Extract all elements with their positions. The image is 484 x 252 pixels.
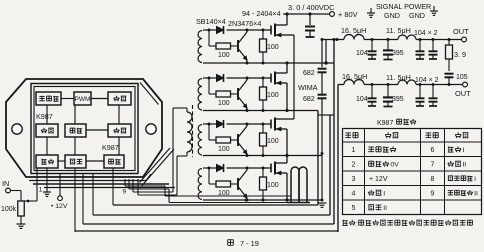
svg-text:SIGNAL POWER: SIGNAL POWER <box>376 2 431 11</box>
wire filter row1 rail <box>322 39 344 41</box>
transistor Q4 2N3476 <box>237 178 239 190</box>
block triangle-wave <box>36 92 61 105</box>
bus fb4 <box>75 230 338 232</box>
bus feedback B <box>44 187 175 189</box>
resistor 100 gate stage1 <box>262 30 264 39</box>
svg-text:100: 100 <box>218 146 230 153</box>
MOSFET V4 <box>270 164 272 173</box>
svg-text:I: I <box>383 190 385 197</box>
svg-text:SB140×4: SB140×4 <box>196 17 226 26</box>
inductor L2 11.5uH <box>398 35 416 40</box>
svg-text:II: II <box>474 190 478 197</box>
wire riser B <box>333 40 335 225</box>
wire stage1 top <box>203 29 216 31</box>
svg-text:11. 5μH: 11. 5μH <box>386 73 411 82</box>
wire stage1 bottom <box>203 62 287 64</box>
svg-text:682: 682 <box>303 96 315 103</box>
wire link y115 <box>318 114 334 116</box>
svg-text:1: 1 <box>39 187 43 194</box>
pin 4 <box>74 174 76 233</box>
table header <box>345 132 351 134</box>
ground 100k <box>17 223 26 225</box>
wire in <box>10 190 21 192</box>
wire riser C <box>329 115 331 215</box>
svg-text:7 - 19: 7 - 19 <box>240 239 259 248</box>
svg-text:6: 6 <box>431 147 435 154</box>
capacitor 395 <box>387 85 389 98</box>
svg-text:II: II <box>462 161 466 168</box>
table note <box>342 220 348 222</box>
capacitor 105 <box>448 59 450 71</box>
svg-text:105: 105 <box>456 74 468 81</box>
wire stage4 bottom <box>203 199 287 201</box>
terminal OUT1 <box>462 37 467 42</box>
svg-text:11. 5μH: 11. 5μH <box>386 26 411 35</box>
bus fb2 <box>93 214 330 216</box>
wire stage4 top <box>203 167 216 169</box>
resistor 100 stage1 <box>216 43 231 49</box>
svg-text:K987: K987 <box>102 143 119 152</box>
pin 6 <box>92 174 94 216</box>
diode D2 SB140 <box>217 75 224 82</box>
capacitor 104x2 b <box>432 40 434 52</box>
diode D1 SB140 <box>217 27 224 34</box>
block buffer <box>36 155 58 168</box>
MOSFET V3 <box>270 120 272 129</box>
capacitor 104 <box>371 40 373 52</box>
wire sensor base <box>287 202 310 204</box>
wire M2 source <box>286 83 288 111</box>
wire totem out 2 <box>138 194 177 196</box>
svg-text:PWM: PWM <box>75 96 91 103</box>
capacitor 104x2 b <box>432 85 434 99</box>
svg-text:GND: GND <box>409 11 425 20</box>
svg-text:+ 12V: + 12V <box>369 176 388 183</box>
svg-text:3: 3 <box>352 176 356 183</box>
wire ground1 node <box>287 110 318 112</box>
svg-text:+ 80V: + 80V <box>338 10 358 19</box>
svg-text:104: 104 <box>356 96 368 103</box>
svg-text:WIMA: WIMA <box>298 83 318 92</box>
wire M1 source <box>287 34 294 36</box>
pin 7 <box>112 174 114 206</box>
capacitor 395 <box>387 40 389 51</box>
svg-text:IN: IN <box>2 179 9 188</box>
resistor 3.9 <box>448 40 450 46</box>
wire M4 drain <box>286 156 288 164</box>
svg-text:104: 104 <box>356 50 368 57</box>
block amp mid-right <box>108 124 131 137</box>
svg-text:K987: K987 <box>36 112 53 121</box>
wire M1 drain <box>286 14 288 25</box>
svg-text:9: 9 <box>123 189 127 196</box>
winding T1 primary <box>187 112 192 152</box>
bus feedback A <box>33 183 169 185</box>
module inner border <box>31 84 138 174</box>
pin 10 <box>132 179 134 192</box>
transistor Q3 2N3476 <box>237 134 239 146</box>
capacitor 3.0/400VDC <box>309 14 311 25</box>
wire M3 drain <box>287 118 294 120</box>
svg-text:395: 395 <box>392 50 404 57</box>
svg-text:2: 2 <box>352 161 356 168</box>
wire output1 node <box>287 62 334 64</box>
wire stage3 top <box>203 123 216 125</box>
wire pin1 to 100k top <box>21 200 37 202</box>
pin 1 signal-in <box>36 174 38 202</box>
MOSFET V1 <box>270 26 272 35</box>
svg-text:100: 100 <box>267 182 279 189</box>
block PWM <box>74 92 91 105</box>
svg-text:OUT: OUT <box>453 27 469 36</box>
svg-text:OUT: OUT <box>455 89 471 98</box>
wire riser E <box>337 85 339 233</box>
mounting hole right <box>146 124 156 134</box>
capacitor 104 <box>371 85 373 99</box>
capacitor 104x2 a <box>419 85 421 99</box>
diode D3 SB140 <box>217 121 224 128</box>
bus fb3 <box>83 223 334 225</box>
terminal +12V <box>58 196 63 201</box>
wire 100k to gnd <box>20 216 22 224</box>
module bevel lines <box>140 83 159 105</box>
resistor 100k <box>18 201 25 216</box>
svg-text:7: 7 <box>431 161 435 168</box>
transistor Q1 2N3476 <box>237 40 239 52</box>
svg-text:16. 5μH: 16. 5μH <box>342 72 367 81</box>
svg-text:395: 395 <box>392 96 404 103</box>
inductor L1 16.5uH <box>344 35 364 40</box>
ground signal gnd <box>370 8 372 13</box>
wire output bus A <box>321 40 323 68</box>
wire filter row2 rail <box>338 84 344 86</box>
block protect <box>104 155 124 168</box>
ground bus A <box>318 202 327 204</box>
pin 9 <box>128 179 130 189</box>
inductor L3 16.5uH <box>344 80 364 85</box>
wire protect sense b <box>129 188 169 190</box>
svg-text:682: 682 <box>303 70 315 77</box>
inductor L4 11.5uH <box>398 80 416 85</box>
pin 5 <box>82 174 84 225</box>
pin 11 <box>137 179 139 195</box>
wire M4 source <box>286 173 288 200</box>
wire stage2 top <box>203 77 216 79</box>
svg-text:5: 5 <box>352 205 356 212</box>
resistor 100 stage3 <box>216 137 231 143</box>
wire +80V rail <box>283 13 330 15</box>
pin 2 signal gnd <box>46 174 48 193</box>
svg-text:104 × 2: 104 × 2 <box>414 30 438 37</box>
wire stage3 rc <box>208 124 210 140</box>
ground power gnd <box>433 6 435 11</box>
svg-text:100: 100 <box>267 92 279 99</box>
wire stage1 rc <box>208 30 210 46</box>
wire stage4 rc <box>208 168 210 184</box>
module internal wires <box>61 98 74 100</box>
svg-text:I: I <box>474 176 476 183</box>
winding T1 secondary 1 <box>198 31 202 63</box>
svg-text:94 - 2404×4: 94 - 2404×4 <box>242 9 281 18</box>
svg-text:K987: K987 <box>377 120 393 127</box>
bus fb1 <box>113 204 318 206</box>
resistor 100 gate stage4 <box>262 168 264 177</box>
winding T1 secondary 2 <box>198 79 202 111</box>
block amp top <box>108 92 131 105</box>
resistor 100 stage4 <box>216 181 231 187</box>
svg-text:8: 8 <box>431 176 435 183</box>
module K987 outline <box>6 79 162 177</box>
transistor Q2 2N3476 <box>237 88 239 100</box>
capacitor 682 bottom <box>318 94 327 96</box>
wire protect sense a <box>125 185 165 187</box>
svg-text::: : <box>356 221 358 228</box>
module pin stubs <box>46 168 48 174</box>
block filter <box>65 124 86 137</box>
wire riser D <box>317 111 319 206</box>
winding current sensor <box>291 167 299 203</box>
wire riser output1 <box>325 40 327 64</box>
block regulator <box>65 155 86 168</box>
mounting hole left <box>12 124 22 134</box>
svg-text:16. 5μH: 16. 5μH <box>341 26 366 35</box>
svg-text:100: 100 <box>218 52 230 59</box>
capacitor 682 top <box>318 68 327 70</box>
svg-text:9: 9 <box>431 190 435 197</box>
block amp mid-left <box>36 124 58 137</box>
svg-text:100: 100 <box>267 138 279 145</box>
terminal +80V <box>330 12 335 17</box>
resistor 100 gate stage2 <box>262 78 264 87</box>
svg-text:104 × 2: 104 × 2 <box>415 77 439 84</box>
winding T1 secondary 3 <box>198 125 202 156</box>
svg-text:• 12V: • 12V <box>51 203 68 210</box>
svg-text:100k: 100k <box>1 206 17 213</box>
caption figure 7-19 <box>227 240 229 246</box>
svg-text:II: II <box>383 205 387 212</box>
svg-text:100: 100 <box>218 100 230 107</box>
wire M3 source <box>286 129 288 156</box>
module side wedge <box>142 149 174 186</box>
diode D4 SB140 <box>217 165 224 172</box>
pin 8 <box>124 179 126 186</box>
svg-text:3. 0 / 400VDC: 3. 0 / 400VDC <box>288 3 335 12</box>
svg-text:I: I <box>462 147 464 154</box>
svg-text:2N3476×4: 2N3476×4 <box>228 19 261 28</box>
terminal OUT2 <box>463 82 468 87</box>
wire stage2 bottom <box>203 110 287 112</box>
svg-text:100: 100 <box>267 44 279 51</box>
svg-text:3. 9: 3. 9 <box>454 50 466 59</box>
wire bus M1src-M3drain <box>293 35 295 119</box>
wire totem out 1 <box>133 191 173 193</box>
svg-text:GND: GND <box>384 11 400 20</box>
svg-text:4: 4 <box>352 190 356 197</box>
wire ground2 node <box>287 199 322 201</box>
wire M2 drain <box>286 63 288 73</box>
wire primary bottom lead <box>186 152 188 156</box>
wire stage2 rc <box>208 78 210 94</box>
MOSFET V2 <box>270 74 272 83</box>
winding T1 secondary 4 <box>198 169 202 200</box>
wire stage3 bottom <box>203 155 287 157</box>
terminal IN <box>6 188 11 193</box>
table K987 function table <box>343 129 482 215</box>
svg-text:0V: 0V <box>391 161 400 168</box>
pin 3 +12V <box>59 174 61 197</box>
resistor 100 stage2 <box>216 91 231 97</box>
svg-text:1: 1 <box>352 147 356 154</box>
wire primary top lead <box>186 108 188 112</box>
wire output2 node <box>287 155 322 157</box>
resistor 100 gate stage3 <box>262 124 264 133</box>
transformer core <box>192 105 194 157</box>
capacitor 104x2 a <box>419 40 421 52</box>
